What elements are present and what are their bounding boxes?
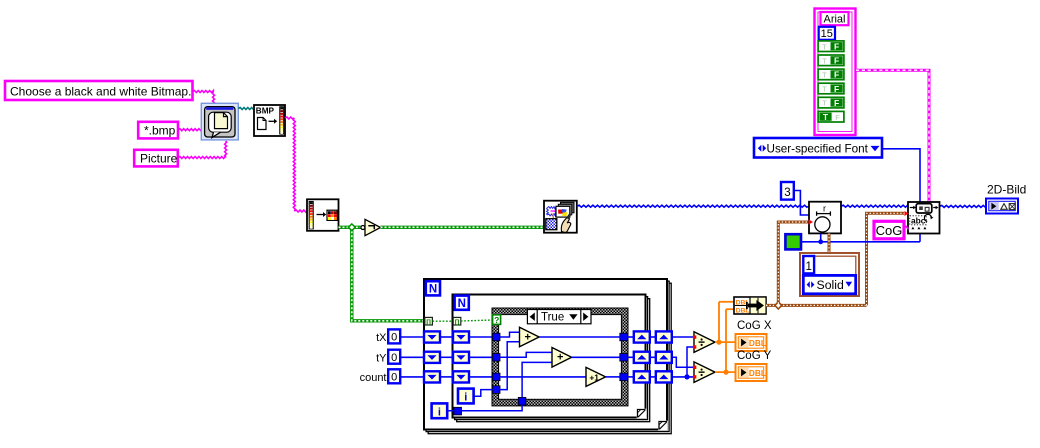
wire picture from Draw Circle to Draw Text [841, 205, 908, 207]
svg-text:F: F [834, 84, 839, 94]
inner loop count terminal N [455, 296, 469, 310]
Read BMP File VI icon [254, 105, 285, 136]
wire T3 to Increment [500, 376, 586, 378]
wire R to inner up shift register (sumX) [627, 336, 634, 338]
coercion dot Draw Text point input [904, 211, 908, 216]
svg-text:F: F [835, 113, 840, 122]
svg-text:3: 3 [784, 187, 790, 199]
wire picture from Draw Text to 2D-Bild indicator [940, 205, 987, 207]
boolean constant F (row 2) [818, 55, 844, 66]
wire path (teal) File Dialog to Read BMP [238, 108, 254, 110]
numeric indicator CoG X (DBL) [736, 334, 767, 351]
auto-index tunnel on inner loop [453, 317, 461, 325]
svg-text:tY: tY [376, 352, 387, 364]
outer loop iteration terminal i [432, 403, 448, 418]
svg-text:N: N [458, 298, 466, 310]
case tunnel right R2 [620, 354, 628, 362]
inner For Loop (stacked layers) [457, 299, 650, 422]
wire tY to outer shift register [400, 356, 424, 358]
svg-text:+: + [557, 352, 563, 364]
svg-text:+1: +1 [589, 372, 599, 382]
svg-text:True: True [541, 312, 564, 324]
case tunnel right R1 [620, 333, 628, 341]
wire pen cluster to Draw Circle bottom (brown) [828, 234, 831, 254]
wire boolean-2D-array from Unflatten Pixmap to junction [339, 226, 352, 229]
color box constant (green) [785, 234, 801, 249]
svg-text:0: 0 [391, 352, 397, 364]
wire R to inner up shift register (count) [627, 376, 634, 378]
outer loop count terminal N [426, 281, 440, 295]
svg-text:0: 0 [391, 372, 397, 384]
svg-text:DBL: DBL [749, 368, 766, 378]
divide function Divide2 [694, 362, 715, 383]
shift register down-arrow inner loop (tY) [453, 352, 469, 363]
numeric constant tY 0 [388, 350, 400, 364]
wire count row to divides [672, 376, 694, 378]
string constant "*.bmp" [138, 122, 178, 139]
case selector label True [527, 310, 591, 324]
junction on boolean array wire [348, 224, 355, 231]
svg-text:[]: [] [426, 319, 430, 326]
svg-text:tX: tX [376, 332, 387, 344]
wire string from Picture to File Dialog bottom [178, 157, 226, 159]
svg-text:T: T [822, 71, 827, 80]
numeric constant count 0 [388, 369, 400, 383]
shift register down-arrow outer loop (tY) [424, 352, 440, 363]
svg-text:CoG Y: CoG Y [737, 350, 772, 362]
wire count between shift registers [440, 376, 453, 378]
wire DBL Divide2 to CoG Y indicator and bundle [715, 371, 736, 373]
wire R to inner up shift register (sumY) [627, 356, 634, 358]
wire boolean-2D-array branch down to For Loop tunnel [352, 227, 425, 320]
cluster constant pen (1, Solid) [800, 253, 859, 296]
wire tX between shift registers [440, 336, 453, 338]
string constant Arial [821, 12, 849, 25]
string constant "Choose a black and white Bitmap." [5, 81, 193, 100]
wire tY between shift registers [440, 356, 453, 358]
wire 3 to Draw Circle left [794, 191, 809, 216]
wire string CoG to Draw Text [904, 226, 908, 228]
wire outer i to case bottom tunnel [447, 405, 522, 411]
string constant "Picture" [134, 150, 178, 167]
wire bottom tunnel to Add2 bottom [522, 362, 552, 397]
svg-text:Arial: Arial [823, 14, 845, 26]
wire cluster from bundle output (brown) [766, 304, 867, 307]
case tunnel T3 (count in) [492, 373, 500, 381]
cluster constant frame (font cluster) [815, 9, 856, 136]
wire DBL Divide1 to CoG X indicator and bundle [715, 341, 736, 343]
wire color box to Draw Circle and Draw Text color inputs [801, 241, 920, 243]
svg-text:15: 15 [821, 28, 833, 40]
Not gate U1 [361, 226, 365, 230]
picture indicator 2D-Bild [986, 199, 1018, 214]
svg-text:*.bmp: *.bmp [144, 124, 176, 138]
inner loop iteration terminal i [458, 389, 474, 404]
svg-text:count: count [360, 372, 387, 384]
wire picture from Draw Unflattened Pixmap to Draw Circle [577, 205, 809, 207]
outer For Loop folded corner [658, 421, 668, 431]
wire Add1 to R1 [539, 336, 620, 338]
wire tX into case tunnel [469, 336, 492, 338]
svg-text:i: i [438, 406, 441, 418]
wire string from *.bmp to File Dialog left [178, 129, 201, 131]
svg-text:T: T [822, 85, 827, 94]
wire inner i to case tunnel T4 [474, 390, 493, 397]
inner For Loop folded corner [637, 409, 647, 419]
svg-text:1: 1 [805, 261, 811, 273]
wire sumY row reroute to Divide2 top [672, 357, 694, 367]
wire cluster branch up to Draw Circle left input [778, 222, 808, 304]
shift register down-arrow outer loop (tX) [424, 331, 440, 342]
svg-text:F: F [834, 98, 839, 108]
Draw Text at Point VI icon [908, 202, 940, 234]
increment function (+1) [586, 367, 606, 386]
boolean constant F (row 5) [818, 97, 844, 108]
svg-text:F: F [834, 56, 839, 66]
add function Add2 (+) [552, 348, 572, 368]
coercion dot Draw Circle point input [809, 219, 813, 224]
boolean constant T (row 6) [818, 111, 844, 122]
wire sumX row to Divide1 top [672, 336, 694, 338]
string constant CoG [874, 221, 904, 239]
svg-text:F: F [834, 42, 839, 52]
case tunnel T4 (inner i in) [492, 386, 500, 394]
shift register up-arrow outer loop (sumY) [656, 352, 672, 363]
wire Add2 to R2 [572, 356, 620, 358]
wire cluster-of-strings from font cluster to Draw Text top (pink dashed) [856, 70, 929, 201]
outer For Loop (stacked layers) [428, 283, 671, 434]
shift register down-arrow inner loop (count) [453, 371, 469, 382]
svg-text:DBL: DBL [749, 338, 766, 348]
svg-text:T: T [823, 112, 829, 122]
Unflatten Pixmap VI icon [307, 199, 339, 231]
shift register down-arrow outer loop (count) [424, 371, 440, 382]
junction on cluster wire [775, 302, 782, 309]
svg-text:0: 0 [391, 332, 397, 344]
shift register up-arrow outer loop (sumX) [656, 331, 672, 342]
boolean constant F (row 4) [818, 83, 844, 94]
add function Add1 (+) [520, 327, 540, 347]
wire tX to outer shift register [400, 336, 424, 338]
svg-text:2D-Bild: 2D-Bild [987, 183, 1026, 197]
wire cluster up to Draw Text left input [867, 213, 905, 305]
ring constant User-specified Font [754, 138, 882, 158]
numeric constant tX 0 [388, 329, 400, 343]
wire between up shift registers (sumY) [650, 356, 656, 358]
case structure border (checkered) [492, 308, 628, 406]
wire boolean dotted tunnel to case selector [461, 320, 493, 321]
divide function Divide1 [694, 332, 715, 353]
svg-text:i: i [464, 392, 467, 404]
bundle function [734, 297, 766, 314]
svg-text:N: N [429, 284, 437, 296]
wire tY into case tunnel [469, 356, 492, 358]
svg-text:CoG X: CoG X [737, 320, 772, 332]
File Dialog express VI icon [201, 103, 238, 140]
shift register up-arrow outer loop (count) [656, 371, 672, 382]
svg-text:User-specified Font: User-specified Font [767, 142, 869, 155]
tunnel on inner loop border for outer i wire [454, 407, 462, 415]
svg-text:T: T [822, 99, 827, 108]
case tunnel T1 (tX in) [492, 333, 500, 341]
case tunnel T2 (tY in) [492, 354, 500, 362]
wire from ring to Draw Text top [882, 149, 920, 202]
svg-text:F: F [834, 70, 839, 80]
wire between up shift registers (sumX) [650, 336, 656, 338]
numeric constant 15 [819, 27, 835, 40]
svg-text:T: T [822, 56, 827, 65]
wire T4 to Add1 bottom [500, 342, 520, 390]
shift register down-arrow inner loop (tX) [453, 331, 469, 342]
shift register up-arrow inner loop (sumY) [634, 352, 650, 363]
wire between up shift registers (count) [650, 376, 656, 378]
numeric indicator CoG Y (DBL) [736, 364, 767, 381]
wire boolean dotted between tunnels [432, 320, 453, 322]
shift register up-arrow inner loop (sumX) [634, 331, 650, 342]
wire Increment to R3 [606, 376, 620, 378]
svg-text:r: r [823, 203, 826, 213]
wire count into case tunnel [469, 376, 492, 378]
boolean constant F (row 1) [818, 41, 844, 52]
auto-index tunnel on outer loop [425, 317, 433, 325]
wire string from Choose constant to File Dialog top [193, 91, 214, 93]
wire T2 to Add2 top [500, 352, 552, 357]
case tunnel bottom (outer i in) [518, 397, 526, 405]
boolean constant F (row 3) [818, 69, 844, 80]
svg-text:?: ? [494, 315, 499, 325]
svg-text:BMP: BMP [256, 107, 275, 116]
svg-text:Picture: Picture [140, 152, 178, 166]
Draw Unflattened Pixmap VI icon [544, 201, 577, 233]
wire T1 to Add1 top [500, 332, 520, 337]
case tunnel right R3 [620, 373, 628, 381]
svg-text:Choose a black and white Bitma: Choose a black and white Bitmap. [10, 85, 191, 99]
shift register up-arrow inner loop (count) [634, 371, 650, 382]
svg-text:T: T [822, 42, 827, 51]
numeric constant 3 [781, 182, 794, 200]
svg-text:CoG: CoG [876, 223, 903, 238]
wire boolean-2D-array Not gate to Draw Unflattened Pixmap [381, 226, 545, 229]
ring constant Solid (in pen cluster) [803, 275, 855, 293]
Draw Circle by Radius VI icon [809, 202, 841, 234]
svg-text:[]: [] [455, 319, 459, 326]
svg-text:+: + [524, 331, 530, 343]
wire boolean-2D-array junction to Not gate [352, 226, 361, 229]
svg-text:abc: abc [911, 215, 926, 225]
svg-text:Solid: Solid [817, 278, 845, 292]
wire string image-data from Read BMP down to Unflatten Pixmap [285, 117, 294, 119]
case selector terminal ? [493, 315, 501, 325]
wire count to outer shift register [400, 376, 424, 378]
